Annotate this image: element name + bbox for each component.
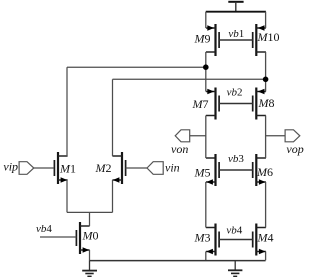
svg-text:M6: M6 [256, 165, 273, 179]
svg-text:vop: vop [286, 142, 303, 156]
svg-text:vb4: vb4 [226, 225, 242, 237]
svg-text:M5: M5 [194, 166, 211, 180]
svg-text:M3: M3 [194, 230, 211, 244]
svg-text:vb3: vb3 [228, 153, 244, 165]
svg-text:vb1: vb1 [228, 28, 244, 40]
svg-text:M7: M7 [192, 97, 209, 111]
svg-text:M0: M0 [82, 228, 99, 242]
svg-text:vb2: vb2 [227, 87, 243, 99]
svg-text:vin: vin [165, 161, 180, 175]
svg-text:M9: M9 [194, 32, 211, 46]
svg-text:M2: M2 [95, 161, 112, 175]
svg-text:M10: M10 [257, 30, 280, 44]
svg-text:vip: vip [3, 159, 18, 173]
svg-text:von: von [171, 142, 188, 156]
svg-text:vb4: vb4 [36, 223, 52, 235]
svg-text:M1: M1 [59, 162, 76, 176]
svg-text:M4: M4 [257, 230, 274, 244]
svg-text:M8: M8 [258, 96, 275, 110]
